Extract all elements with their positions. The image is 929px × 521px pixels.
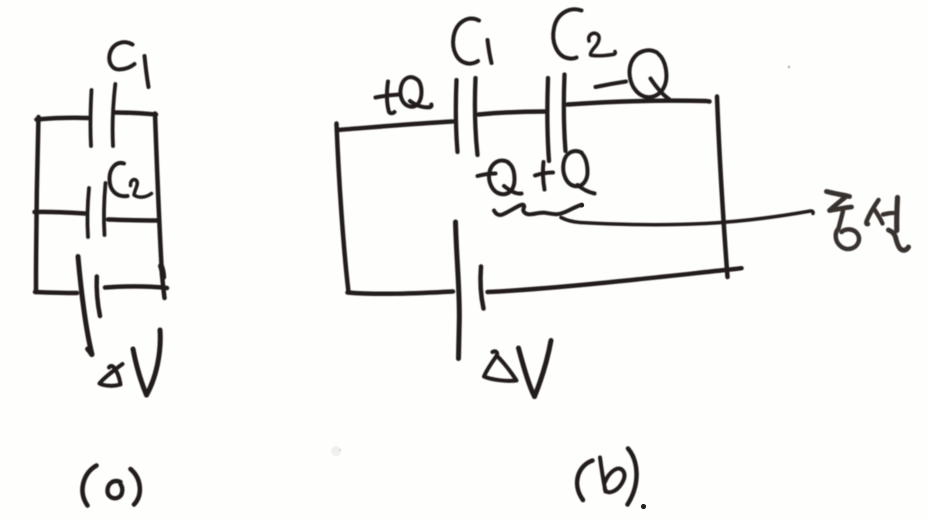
label delta (b): [484, 351, 517, 380]
label (b) open paren: [577, 461, 592, 501]
battery long plate (b): [456, 222, 460, 359]
label +Q top: Q tail: [410, 101, 432, 107]
label -Q top: minus: [596, 82, 627, 88]
knot on right vertical (a): [161, 266, 163, 277]
label C2: [110, 163, 128, 196]
capacitor C1 (b) left plate: [456, 80, 458, 152]
label delta (a): [100, 364, 123, 386]
faint speck top right: [788, 66, 791, 69]
label V (b) right stroke: [535, 341, 552, 397]
capacitor C2 (b) left plate: [547, 78, 549, 161]
label (b) period: [641, 504, 646, 509]
label -Q middle: Q oval: [489, 161, 514, 195]
wire bottom-right rung (a): [105, 286, 167, 288]
label C1: [109, 42, 134, 69]
label (b) letter b stem: [600, 458, 606, 492]
korean seon: eo vertical: [894, 198, 900, 231]
korean seon: nieun: [889, 230, 909, 250]
korean jung: u stem and ieung circle: [836, 211, 859, 249]
wire bottom-left rung (a): [35, 292, 77, 293]
label C1 (b): [453, 19, 479, 64]
wire top-left rung (a): [37, 118, 89, 120]
label +Q top: plus vertical: [387, 82, 395, 114]
korean seon: eo tick: [883, 213, 893, 215]
label (b) close paren: [628, 449, 637, 505]
label C2 (b): [553, 9, 581, 58]
wire left vertical (b): [337, 124, 349, 293]
wire mid-right rung (a): [108, 220, 158, 221]
label C1 subscript 1: [145, 56, 149, 87]
label +Q top: Q oval: [400, 77, 421, 106]
battery short plate (b): [481, 267, 484, 309]
capacitor C1 (b) right plate: [475, 78, 478, 155]
label (a) close paren: [131, 469, 140, 505]
label C2 (b) subscript 2: [589, 33, 616, 56]
capacitor C2 left plate: [87, 188, 89, 237]
wire bottom-right (b): [488, 268, 742, 292]
label C1 (b) subscript 1: [488, 40, 492, 63]
wire left vertical (a): [36, 117, 39, 292]
label -Q top: Q tail: [651, 79, 670, 100]
label V (a) left stroke: [133, 349, 147, 395]
capacitor C2 right plate: [104, 183, 106, 235]
label -Q middle: Q tail: [504, 186, 522, 194]
battery long plate (a): [78, 257, 92, 355]
faint smudge bottom center: [331, 446, 341, 456]
wire mid-left rung (a): [35, 212, 86, 214]
label +Q middle: Q oval: [563, 151, 587, 186]
label (a) letter a: [107, 481, 122, 498]
korean jung: jieut leg and u bar: [830, 197, 852, 211]
squiggle end blob: [580, 203, 585, 208]
label +Q middle: Q tail: [578, 185, 595, 194]
wire top-right (b): [568, 101, 710, 105]
label +Q middle: plus horizontal: [535, 173, 553, 176]
wire middle lead to right (b): [561, 211, 813, 225]
wire right vertical (a): [155, 114, 165, 299]
squiggle under charges (b): [494, 205, 582, 215]
label -Q top: Q oval: [630, 50, 667, 97]
wire top-left (b): [338, 122, 453, 131]
wire bottom-left (b): [348, 292, 454, 294]
wire between C1 and C2 (b): [479, 112, 546, 115]
label +Q top: plus horizontal: [376, 95, 400, 98]
label V (b) left stroke: [519, 348, 535, 397]
label (b) letter b bowl: [605, 469, 625, 493]
label +Q middle: plus vertical: [543, 162, 545, 190]
korean seon: siot left leg: [866, 200, 878, 224]
label V (a) right stroke: [147, 330, 161, 395]
capacitor C2 (b) right plate: [564, 75, 566, 152]
label (a) open paren: [82, 466, 96, 506]
label -Q middle: minus: [478, 174, 496, 177]
capacitor C1 left plate: [90, 90, 91, 146]
wire top-right rung (a): [115, 113, 156, 115]
capacitor C1 right plate: [113, 84, 116, 146]
korean seon: siot right leg: [875, 210, 883, 224]
korean jung: jieut top bar: [827, 192, 850, 197]
battery short plate (a): [97, 277, 100, 317]
wire right vertical (b): [717, 97, 728, 278]
label C2 subscript 2: [130, 180, 151, 198]
